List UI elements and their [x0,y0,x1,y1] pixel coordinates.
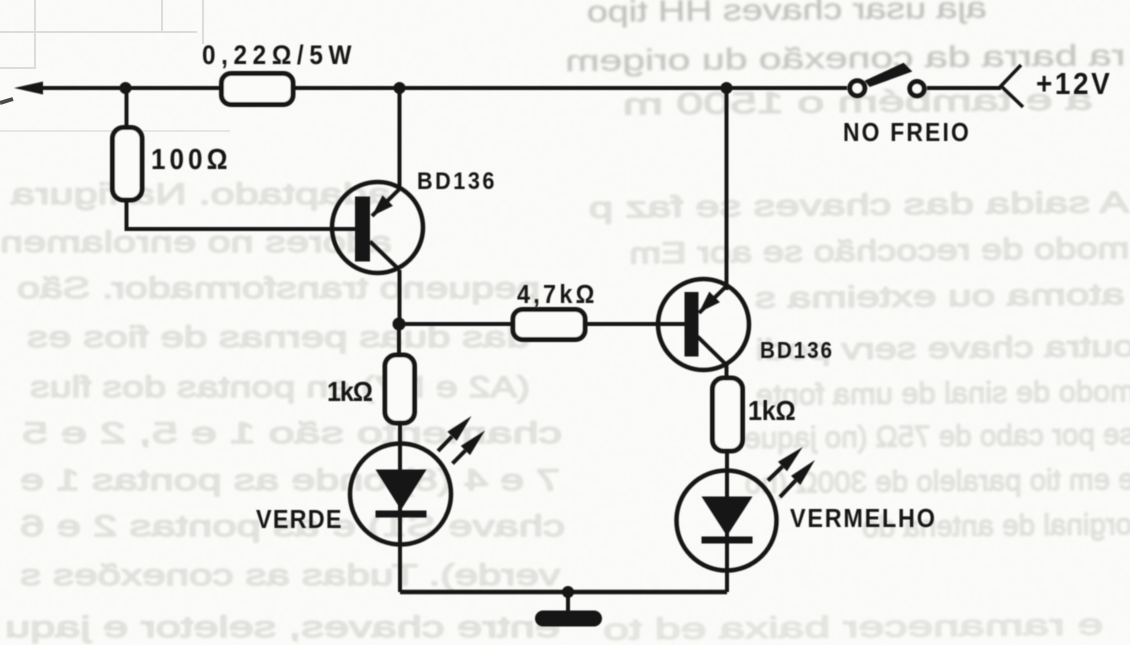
LED D2 arrow 1 [768,467,783,481]
LED D2 triangle [702,497,753,537]
svg-text:e ramanecer baixa ed to: e ramanecer baixa ed to [603,608,1103,645]
bleed-through mirrored text right column [565,0,1130,645]
svg-text:0,22Ω/5W: 0,22Ω/5W [202,41,352,70]
svg-text:verde). Tudas as conexões s: verde). Tudas as conexões s [20,559,560,592]
ground bar [535,611,602,627]
svg-text:entre chaves, seletor e jaqu: entre chaves, seletor e jaqu [5,611,560,644]
wire bottom rail [400,590,727,595]
wire Q1 collector to node [398,270,402,324]
svg-text:BD136: BD136 [417,167,494,194]
svg-text:+12V: +12V [1036,67,1110,102]
wire switch to connector [927,86,1001,90]
svg-text:aja usar chaves HH tipo: aja usar chaves HH tipo [587,0,987,29]
LED D2 VERMELHO circle [677,471,777,571]
svg-text:modo de sinal de uma fonte: modo de sinal de uma fonte [756,375,1130,412]
node junction top-right [721,82,733,94]
transistor Q1 BD136 circle [332,182,423,273]
resistor R5 1kohm right [713,378,743,451]
bleed-through mirrored text left column [0,178,565,644]
transistor Q1 collector diagonal [370,242,400,271]
transistor Q1 base bar [355,197,370,262]
arrow left [14,82,43,95]
connector +12V chevron [1001,65,1023,107]
LED D1 arrow 2 [453,451,466,464]
LED D2 arrow 2 [780,480,796,497]
svg-text:VERDE: VERDE [256,506,342,534]
wire ground stub [566,592,570,613]
transistor Q2 BD136 circle [658,279,749,370]
svg-text:A saida das chaves se faz p: A saida das chaves se faz p [589,186,1129,225]
resistor R2 100ohm [113,128,143,201]
faint bleed-through grid lines top-left [0,0,230,131]
transistor Q1 emitter arrowhead [372,195,393,216]
resistor R3 4,7kohm [513,310,585,340]
wire R4 to LED1 to bottom rail [398,423,402,592]
wire top rail [30,86,847,90]
wire R5 to LED2 to bottom rail [725,451,729,592]
node junction top-left [120,82,132,94]
wire R3 to Q2 base [585,322,687,326]
LED D1 arrow 1 [438,437,452,452]
transistor Q2 emitter arrowhead [699,292,720,313]
wire node to R3 [399,322,513,326]
schematic ink [14,63,1023,627]
wire 100ohm drop [125,88,129,132]
svg-text:modo de recochão se aor Em: modo de recochão se aor Em [629,232,1129,270]
wire base Q1 [127,200,359,229]
svg-text:1kΩ: 1kΩ [748,395,796,427]
transistor Q2 collector diagonal [698,337,727,366]
wire Q2 to R5 [725,365,729,379]
svg-text:(A2 e N7) en pontas dos flus: (A2 e N7) en pontas dos flus [30,371,530,404]
transistor Q2 emitter diagonal [699,286,727,313]
wire collector drop Q1 [398,88,402,190]
svg-text:pequeno transformador. São: pequeno transformador. São [17,272,540,305]
small dark mark left edge [0,99,13,103]
resistor R4 1kohm left [385,355,415,423]
node junction mid [393,318,406,331]
resistor R1 0,22ohm/5W [222,74,294,105]
svg-text:1kΩ: 1kΩ [327,376,373,408]
wire Q2 collector drop [725,88,729,290]
svg-text:7 e 4 (8) onde as pontas 1 e: 7 e 4 (8) onde as pontas 1 e [20,464,560,497]
svg-text:adaptado. Na figura: adaptado. Na figura [11,178,391,211]
LED D1 cathode bar [376,511,427,518]
LED D1 triangle [376,470,427,511]
node junction top-mid [394,82,406,94]
svg-text:4,7kΩ: 4,7kΩ [517,281,594,309]
LED D1 VERDE circle [350,444,451,545]
svg-text:atoma ou exteima s: atoma ou exteima s [755,278,1125,315]
LED D2 cathode bar [702,537,753,544]
svg-text:100Ω: 100Ω [151,143,228,176]
svg-text:BD136: BD136 [760,337,832,363]
switch SW1 left contact [850,81,865,96]
svg-text:VERMELHO: VERMELHO [790,505,935,533]
wire node to R4 [397,324,401,355]
switch SW1 lever [865,63,913,87]
transistor Q2 base bar [685,292,699,357]
switch SW1 right contact [910,82,924,96]
node junction ground [562,586,574,598]
svg-text:se por cabo de 75Ω (no jaque: se por cabo de 75Ω (no jaque [744,418,1130,455]
transistor Q1 emitter diagonal [372,189,400,217]
